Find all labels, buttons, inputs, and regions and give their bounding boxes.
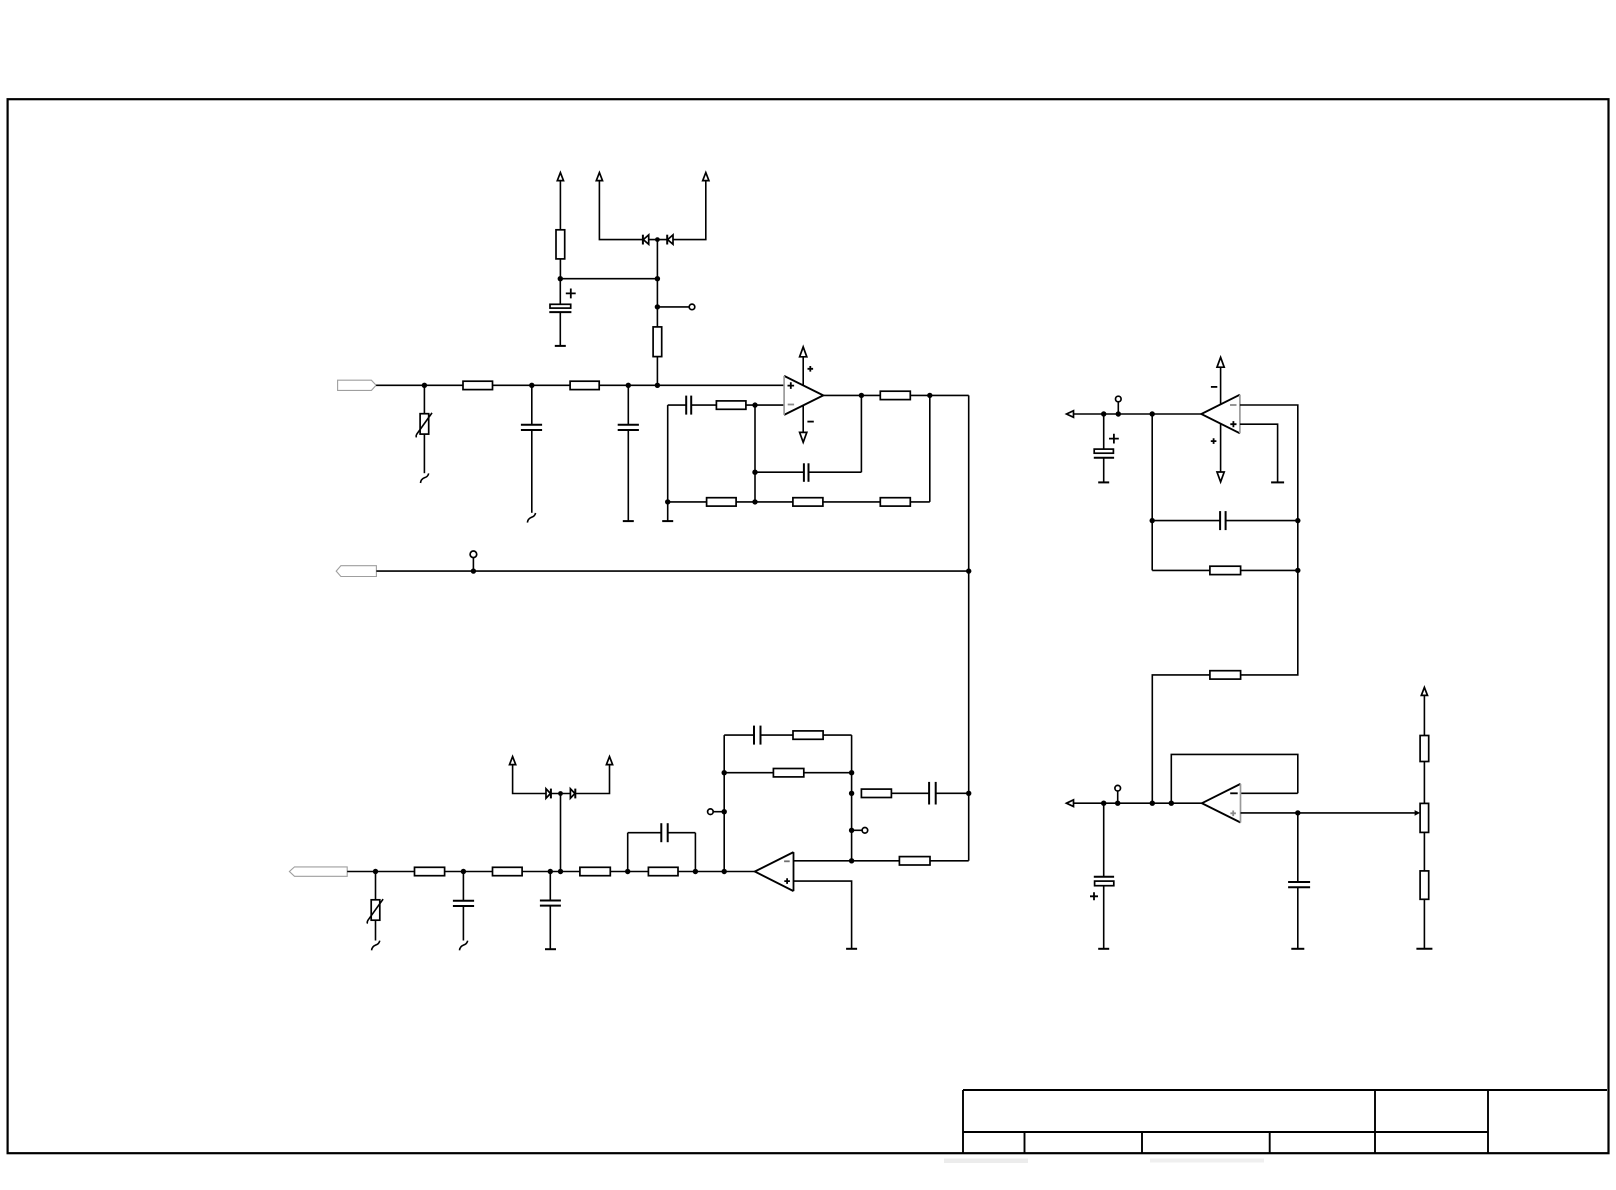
wire U4 output row: [1074, 802, 1202, 804]
wire main input line: [376, 384, 784, 386]
resistor R10: [415, 867, 445, 875]
junction: [655, 276, 660, 281]
terminal circle right column: [862, 828, 868, 834]
junction: [849, 828, 854, 833]
wire top feedback row left: [724, 734, 754, 736]
power arrow U2 up: [1217, 357, 1224, 367]
resistor R1: [463, 381, 493, 389]
wire R4 lower lead: [559, 259, 561, 279]
junction: [665, 499, 670, 504]
potentiometer RP1: [1415, 803, 1429, 832]
wire C8 loop top left: [628, 832, 662, 834]
capacitor C1: [521, 425, 542, 430]
terminal circle: [689, 304, 695, 310]
junction: [373, 869, 378, 874]
resistor R7: [793, 498, 823, 506]
wire U1 output: [823, 394, 968, 396]
electrolytic capacitor C3 plus sign: [566, 289, 576, 299]
wire U2 plus input to ground: [1240, 424, 1278, 482]
electrolytic capacitor C11 plus sign: [1109, 434, 1119, 444]
power arrow bottom left: [510, 757, 516, 765]
ground bar pot chain: [1416, 948, 1432, 950]
wire R3 to diode node: [656, 240, 658, 327]
diode D1: [643, 235, 649, 245]
varistor RV2: [367, 899, 383, 923]
wire C9 to R15: [761, 734, 794, 736]
ground bar U3 plus: [846, 948, 857, 950]
power label minus: [807, 421, 813, 423]
electrolytic capacitor C3: [549, 279, 571, 346]
resistor R2: [570, 381, 599, 389]
power arrow pot top: [1421, 687, 1427, 695]
wire R19 row to lower column: [1152, 675, 1210, 803]
wire C14 bottom lead: [1297, 887, 1299, 949]
capacitor C9: [754, 726, 761, 745]
wire R18 row left: [1152, 569, 1210, 571]
ground bar C13: [1098, 948, 1109, 950]
wire feedback node column: [667, 405, 669, 521]
wire diode left supply: [513, 765, 546, 794]
junction: [548, 869, 553, 874]
op-amp U3: [755, 852, 794, 891]
wire U2 output row: [1074, 413, 1202, 415]
wire C8 loop right riser: [694, 833, 696, 872]
junction: [1295, 810, 1300, 815]
power arrow VCC diode right: [703, 173, 709, 181]
terminal circle mid rail: [470, 551, 477, 558]
connector J2 tag: [336, 566, 376, 577]
wire minus row U2b: [794, 860, 900, 862]
junction: [422, 383, 427, 388]
wire U4 minus input: [1241, 792, 1298, 794]
wire R5 to op-amp minus: [746, 404, 784, 406]
connector J3 output tag: [289, 867, 347, 876]
ground bar feedback: [662, 520, 673, 522]
wire terminal stub: [657, 306, 689, 308]
title block outline: [963, 1090, 1607, 1153]
junction: [626, 383, 631, 388]
wire to C4: [668, 404, 687, 406]
wire C6 bottom lead: [462, 906, 464, 941]
chassis squiggle under C6: [460, 941, 468, 951]
wire main bottom line: [347, 871, 755, 873]
wire feedback risers: [861, 395, 929, 502]
wire C2 bottom lead: [627, 430, 629, 521]
junction: [1295, 568, 1300, 573]
junction: [849, 791, 854, 796]
terminal circle bottom left: [708, 809, 714, 815]
wire C5 leads: [755, 471, 861, 473]
junction: [461, 869, 466, 874]
resistor R18: [1210, 566, 1241, 574]
resistor R8: [880, 498, 910, 506]
wire C7 bottom lead: [549, 906, 551, 950]
power label plus: [808, 366, 814, 372]
wire R4 upper lead: [559, 181, 561, 230]
junction: [966, 568, 971, 573]
junction: [752, 402, 757, 407]
wire C12 row right: [1226, 520, 1298, 522]
junction: [558, 791, 563, 796]
wire diode right supply: [575, 765, 609, 794]
wire U4 plus/output row to pot: [1241, 812, 1415, 814]
resistor R11: [493, 867, 523, 875]
junction: [1115, 801, 1120, 806]
resistor R17: [899, 857, 930, 865]
op-amp U2: [1201, 395, 1240, 434]
power arrow U2 down: [1217, 472, 1224, 482]
resistor R13: [648, 867, 678, 875]
wire D1 to node: [649, 239, 668, 241]
wire C8 loop top right: [668, 832, 696, 834]
capacitor C4: [686, 396, 691, 415]
junction: [966, 791, 971, 796]
junction: [849, 770, 854, 775]
junction: [529, 383, 534, 388]
power arrow U1 up: [800, 347, 807, 357]
wire RV1 bottom lead: [423, 434, 425, 473]
junction: [655, 383, 660, 388]
junction: [752, 470, 757, 475]
wire C4 to R5: [691, 404, 716, 406]
capacitor C1 top lead: [531, 385, 533, 424]
power arrow VCC: [557, 173, 563, 181]
capacitor C10: [929, 782, 936, 805]
junction: [693, 869, 698, 874]
ground bar C11: [1098, 481, 1109, 483]
wire bias cross link: [560, 278, 657, 280]
junction: [722, 770, 727, 775]
wire U3 plus input to ground: [794, 881, 852, 949]
op-amp U2 power rail: [1220, 367, 1222, 472]
op-amp U1 power rail: [802, 357, 804, 432]
resistor R14: [773, 769, 803, 777]
terminal circle U2 row: [1116, 396, 1122, 402]
wire R18 row right: [1241, 569, 1298, 571]
electrolytic capacitor C13 plus sign: [1090, 892, 1098, 900]
junction: [849, 858, 854, 863]
wire output bus vertical: [968, 395, 970, 860]
ground bar C14: [1291, 948, 1304, 950]
junction: [752, 499, 757, 504]
wire R16 to C10: [891, 792, 929, 794]
junction: [471, 568, 476, 573]
junction: [722, 809, 727, 814]
terminal stub mid rail: [472, 558, 474, 571]
resistor R21 vertical: [1420, 871, 1429, 899]
wire C10 to bus: [936, 792, 969, 794]
junction: [1116, 411, 1121, 416]
capacitor C14: [1288, 882, 1310, 887]
ground bar U2 plus: [1271, 481, 1284, 483]
wire U4 feedback loop: [1171, 754, 1298, 803]
wire bias resistor column: [656, 357, 658, 386]
terminal stub right column: [852, 829, 862, 831]
junction: [722, 869, 727, 874]
wire C12 row left: [1152, 520, 1220, 522]
wire diode right supply: [673, 181, 706, 240]
wire diode left supply: [599, 181, 643, 240]
junction: [558, 869, 563, 874]
capacitor C6: [453, 901, 474, 906]
wire RV1 top lead: [423, 385, 425, 413]
resistor R16: [861, 789, 891, 797]
junction: [1101, 411, 1106, 416]
wire pot top lead: [1423, 695, 1425, 735]
wire pot to R21: [1423, 832, 1425, 871]
terminal stub bottom left: [713, 811, 724, 813]
junction: [1169, 801, 1174, 806]
junction: [1150, 411, 1155, 416]
capacitor C2: [618, 425, 639, 430]
junction: [927, 393, 932, 398]
resistor R12: [580, 867, 610, 875]
diode D2: [667, 235, 673, 245]
junction: [558, 276, 563, 281]
wire U2 minus input: [1240, 405, 1298, 521]
capacitor C7: [540, 901, 561, 906]
wire lower feedback row: [755, 501, 930, 503]
chassis squiggle under RV1: [421, 473, 429, 483]
junction: [1150, 801, 1155, 806]
junction: [1295, 518, 1300, 523]
junction: [1150, 518, 1155, 523]
capacitor C7 top lead: [549, 872, 551, 901]
chassis squiggle under RV2: [372, 941, 380, 951]
capacitor C2 top lead: [627, 385, 629, 424]
op-amp U1: [784, 376, 823, 415]
capacitor C12: [1220, 511, 1226, 530]
wire RV2 top lead: [375, 872, 377, 900]
wire R17 to bus corner: [930, 860, 969, 862]
power label minus U2: [1211, 386, 1217, 388]
terminal stub U2 row: [1117, 402, 1119, 414]
terminal circle U4 row: [1115, 785, 1121, 791]
resistor R20 vertical: [1420, 736, 1429, 762]
resistor R4 vertical: [556, 230, 565, 259]
wire between diodes: [551, 793, 571, 795]
terminal stub U4 row: [1117, 791, 1119, 803]
wire right column down to R19 row: [1241, 521, 1298, 675]
electrolytic capacitor C13: [1094, 803, 1114, 949]
wire feedback left column: [723, 735, 725, 871]
capacitor C8: [661, 823, 667, 842]
wire U2 fb left column: [1151, 414, 1153, 570]
resistor R5: [716, 401, 746, 409]
power arrow U1 down: [800, 432, 807, 442]
faint footer text marks: [944, 1159, 1028, 1164]
varistor RV1: [416, 413, 432, 437]
output arrow left U4: [1067, 800, 1074, 807]
wire feedback right column: [851, 735, 853, 861]
resistor R3 vertical: [653, 327, 662, 357]
power arrow bottom right: [606, 757, 612, 765]
resistor R15: [793, 731, 823, 739]
resistor R19: [1210, 671, 1241, 679]
op-amp U4: [1202, 784, 1241, 823]
capacitor C6 top lead: [462, 872, 464, 901]
resistor R9: [880, 391, 910, 399]
diode D4: [570, 789, 575, 799]
wire diode node riser: [560, 794, 562, 872]
wire R6 leads: [668, 501, 755, 503]
junction: [859, 393, 864, 398]
wire C8 loop left riser: [627, 833, 629, 872]
junction: [655, 304, 660, 309]
junction: [655, 237, 660, 242]
power label plus U2: [1211, 438, 1217, 444]
wire R14 row left: [724, 772, 773, 774]
diode D3: [546, 789, 551, 799]
wire RV2 bottom lead: [375, 920, 377, 940]
chassis squiggle under C1: [527, 513, 535, 523]
connector J1 input tag: [338, 380, 377, 390]
wire inverting node column: [754, 405, 756, 502]
junction: [1101, 801, 1106, 806]
ground bar for C2: [623, 520, 634, 522]
output arrow left U2: [1067, 411, 1074, 418]
wire R21 bottom lead: [1423, 899, 1425, 949]
power arrow VCC diode left: [596, 173, 602, 181]
wire R20 to pot: [1423, 762, 1425, 804]
wire top feedback row right: [823, 734, 852, 736]
ground bar for C3: [555, 345, 566, 347]
wire mid rail: [376, 570, 968, 572]
capacitor C5: [804, 463, 809, 482]
wire C1 bottom lead: [531, 430, 533, 513]
electrolytic capacitor C11: [1094, 414, 1114, 482]
junction: [625, 869, 630, 874]
wire R14 row right: [804, 772, 852, 774]
resistor R6: [707, 498, 737, 506]
capacitor C14 top lead: [1297, 813, 1299, 882]
ground bar for C7: [545, 948, 556, 950]
